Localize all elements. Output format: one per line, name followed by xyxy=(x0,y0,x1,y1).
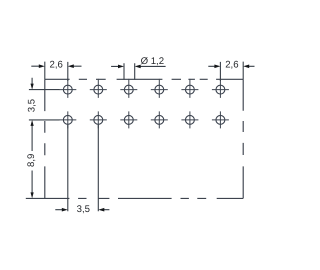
crosshair hole A2 xyxy=(90,79,107,98)
arrow left at col1 xyxy=(68,64,74,68)
dim 3,5 left: arrow tails / 8,9 dim line xyxy=(31,78,33,193)
arrow down at body bottom xyxy=(31,192,34,198)
arrow right at dia left ext xyxy=(118,65,124,69)
arrow right at col1 bottom xyxy=(62,208,68,212)
dim dia 1,2: arrow tails xyxy=(111,65,166,67)
hole A6 xyxy=(216,85,225,94)
hole A2 xyxy=(94,85,103,94)
arrow left at right body edge xyxy=(243,65,249,69)
dim 3,5 bottom: arrow tails xyxy=(55,209,109,211)
hole B2 xyxy=(94,115,103,124)
hole B4 xyxy=(155,115,164,124)
svg-text:Ø 1,2: Ø 1,2 xyxy=(141,56,164,67)
crosshair hole B3 xyxy=(120,111,137,128)
arrow left at col2 bottom xyxy=(98,208,104,212)
body bottom edge xyxy=(26,197,243,199)
body left edge xyxy=(44,79,46,198)
arrow right at left body edge xyxy=(39,64,45,68)
arrowheads xyxy=(31,64,250,211)
dim 2,6 right: arrow tails xyxy=(208,65,254,67)
holes: 12 circles with center crosshairs xyxy=(63,85,224,124)
crosshair hole A3 xyxy=(120,79,137,98)
dim 2,6 right: extension lines xyxy=(220,62,243,81)
hole B6 xyxy=(216,115,225,124)
arrow left at dia right ext xyxy=(135,65,141,69)
dim 3,5 left: extension lines (row lines) xyxy=(29,90,60,120)
hole A5 xyxy=(185,85,194,94)
svg-text:2,6: 2,6 xyxy=(225,60,238,71)
dim 3,5 bottom: extension lines xyxy=(68,125,99,211)
body top edge xyxy=(45,78,243,80)
crosshair hole A4 xyxy=(151,79,168,98)
dim dia 1,2: extension lines xyxy=(124,63,135,80)
crosshair hole A5 xyxy=(181,79,198,98)
dim 2,6 left: arrow tails xyxy=(31,65,81,67)
dimension lines xyxy=(29,62,255,212)
arrow right at col6 xyxy=(214,65,220,69)
crosshair hole B6 xyxy=(212,111,229,128)
hole B3 xyxy=(124,115,133,124)
crosshair hole B1 xyxy=(59,111,76,128)
arrow down at row1 xyxy=(31,84,34,90)
svg-text:8,9: 8,9 xyxy=(26,154,37,167)
crosshair hole A6 xyxy=(212,79,229,98)
hole B1 xyxy=(63,115,72,124)
hole B5 xyxy=(185,115,194,124)
crosshair hole B5 xyxy=(181,111,198,128)
dim 2,6 left: extension lines xyxy=(45,62,68,81)
arrow up at row2 xyxy=(31,120,34,126)
hole A3 xyxy=(124,85,133,94)
crosshair hole B2 xyxy=(90,111,107,128)
crosshair hole B4 xyxy=(151,111,168,128)
svg-text:3,5: 3,5 xyxy=(26,99,37,112)
svg-text:2,6: 2,6 xyxy=(50,60,63,71)
hole A4 xyxy=(155,85,164,94)
svg-text:3,5: 3,5 xyxy=(77,204,90,215)
hole A1 xyxy=(63,85,72,94)
crosshair hole A1 xyxy=(59,79,76,98)
body right edge xyxy=(242,79,244,198)
